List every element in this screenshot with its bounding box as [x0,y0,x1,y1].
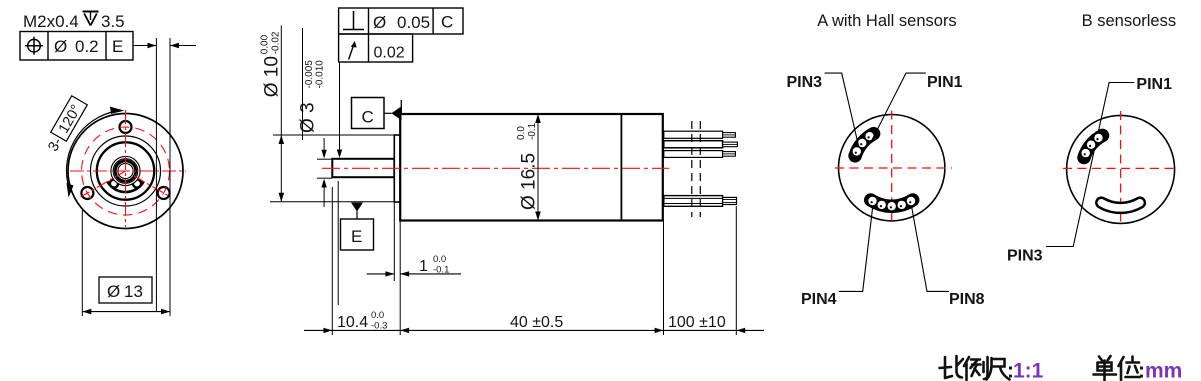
circle B [1067,115,1175,223]
extension line body face [399,221,401,336]
lower wire [664,196,723,207]
svg-text:Ø 16.5: Ø 16.5 [519,153,540,210]
D16.5 rotated label [516,122,540,210]
shaft boss bold ring [115,161,135,181]
svg-text:mm: mm [1145,360,1182,381]
mounting hole top [120,121,132,133]
upper wire 1 [664,131,723,138]
phase connector band lower [871,200,913,206]
char li [964,357,969,380]
svg-text:Ø: Ø [54,37,67,56]
svg-text:1:1: 1:1 [1013,360,1044,381]
svg-text:PIN3: PIN3 [787,74,823,91]
sensor connector band B [1084,135,1103,157]
leader arrows to M2 hole extension lines [133,45,156,47]
bearing ring inner [113,159,138,184]
end cap divider [620,114,622,221]
SIDE VIEW [322,98,669,251]
VIEW A with Hall sensors [787,12,985,308]
red radial centerline 330deg [134,176,170,197]
mounting hole lower-right [158,187,170,199]
svg-text:0.02: 0.02 [374,45,405,62]
extension line below shaft tip [331,187,333,335]
svg-text:0.05: 0.05 [397,13,430,32]
svg-text:Ø 10: Ø 10 [261,56,282,97]
svg-text:PIN3: PIN3 [1007,248,1043,265]
svg-text:-0.3: -0.3 [371,321,387,332]
svg-text:PIN8: PIN8 [949,291,985,308]
M2 hole extension line right [169,38,171,316]
red horizontal centerline [70,170,186,172]
extension line cap face [663,221,665,336]
svg-text:0.0: 0.0 [516,126,527,140]
char chi [987,358,1010,380]
D10 dimension line [280,26,282,202]
svg-text:100 ±10: 100 ±10 [668,314,726,331]
datum E triangle and box [351,203,363,212]
retainer clip left [110,179,118,187]
upper wire 2 [664,141,723,148]
depth symbol [83,11,99,13]
wire break line right [699,121,701,217]
position symbol [28,39,41,52]
D3 dimension line with arrows [323,138,325,157]
svg-text:-0.1: -0.1 [433,265,449,276]
red bolt circle d13 [82,127,170,215]
retainer clip right [133,179,141,187]
svg-text:C: C [441,13,453,32]
position feature control frame [20,32,133,61]
svg-text:A with Hall sensors: A with Hall sensors [817,12,956,30]
1mm dim [393,202,395,281]
D10 rotated label [259,31,282,97]
pin wire1 [723,133,736,138]
svg-text:40 ±0.5: 40 ±0.5 [510,314,563,331]
bearing ring outer [111,156,140,185]
motor flange outer circle [68,114,183,229]
hall connector band upper [855,134,874,156]
dimension line [82,311,170,313]
shaft bottom edge extension tick [317,177,332,179]
mounting hole lower-left [81,187,93,199]
boss top extension line [273,134,394,136]
svg-text:1: 1 [419,258,428,275]
red crosshair A horizontal [835,167,952,169]
char dan [1099,356,1111,361]
red crosshair B vertical [1120,111,1122,226]
D16.5 dimension line [537,114,539,221]
shaft top edge extension tick [317,158,332,160]
MID DIMENSION CLUSTER [259,26,400,336]
main dimension line [304,329,764,331]
svg-text:-0.005: -0.005 [304,60,315,89]
circle A [839,115,945,221]
char bi [940,357,953,378]
svg-text:0.0: 0.0 [433,254,446,265]
extension line left [81,210,83,316]
120deg arc with arrows [66,111,116,192]
SCALE TEXT 比例尺:1:1 [940,356,1010,380]
label box [99,277,152,303]
char wei [1119,357,1124,380]
wire break line left [691,121,693,217]
svg-text:B sensorless: B sensorless [1082,12,1176,30]
pilot circle d29 [97,142,154,199]
PIN leader line through view B [1046,83,1134,247]
svg-text:3.5: 3.5 [101,12,125,31]
svg-text:0.0: 0.0 [371,310,384,321]
BOTTOM DIMENSIONS [304,202,764,335]
svg-text:M2x0.4: M2x0.4 [23,12,79,31]
M2 hole extension line left [155,38,157,312]
TOP LEFT CALLOUT [20,12,196,317]
VIEW B sensorless [1007,12,1178,265]
red crosshair A vertical [891,111,893,224]
FRONT VIEW [43,96,186,229]
svg-text:0.00: 0.00 [259,34,270,54]
D3 label line [302,28,304,140]
red radial centerline 210deg [81,171,126,197]
svg-text:Ø: Ø [107,282,120,301]
perpendicularity frame [339,8,463,34]
D13 DIMENSION [82,210,170,316]
svg-text:10.4: 10.4 [337,314,368,331]
lower pin [723,197,737,204]
svg-text:E: E [112,37,123,56]
motor body [400,114,663,221]
upper wire 3 [664,151,723,158]
svg-text::: : [1138,360,1145,381]
extension line pin end [735,206,737,335]
svg-text:C: C [362,108,374,127]
red vertical centerline [125,110,127,227]
svg-text:-0.1: -0.1 [527,122,538,140]
boss [394,135,400,202]
boss bottom extension line [270,201,400,203]
3-120deg label [43,96,87,155]
circular runout frame [339,34,413,62]
WIRES [664,121,738,217]
svg-text:0.2: 0.2 [75,37,99,56]
UNITS TEXT 单位:mm [1094,356,1141,381]
datum C box [352,98,385,129]
FCF leader line down to shaft [339,63,341,156]
svg-text:-0.02: -0.02 [270,31,281,54]
shaft [332,159,394,177]
svg-text:Ø: Ø [373,13,386,32]
red crosshair B horizontal [1063,167,1178,169]
pilot circle d35 [91,136,161,206]
svg-text:-0.010: -0.010 [315,60,326,89]
svg-text:PIN1: PIN1 [1136,76,1172,93]
svg-text:Ø 3: Ø 3 [298,102,319,133]
extension line below shaft a [337,181,339,305]
red axis centerline [322,167,669,169]
svg-text:PIN4: PIN4 [801,291,837,308]
sensorless slot [1101,203,1140,208]
pin wire3 [723,152,736,157]
retainer bottom thick arc [107,182,143,193]
pin wire2 [723,142,738,147]
svg-text:13: 13 [124,282,143,301]
D3 rotated label [298,60,326,133]
svg-text:E: E [351,227,362,246]
svg-text:PIN1: PIN1 [927,74,963,91]
FEATURE CONTROL FRAMES TOP [339,8,463,62]
shaft bore [118,163,133,178]
